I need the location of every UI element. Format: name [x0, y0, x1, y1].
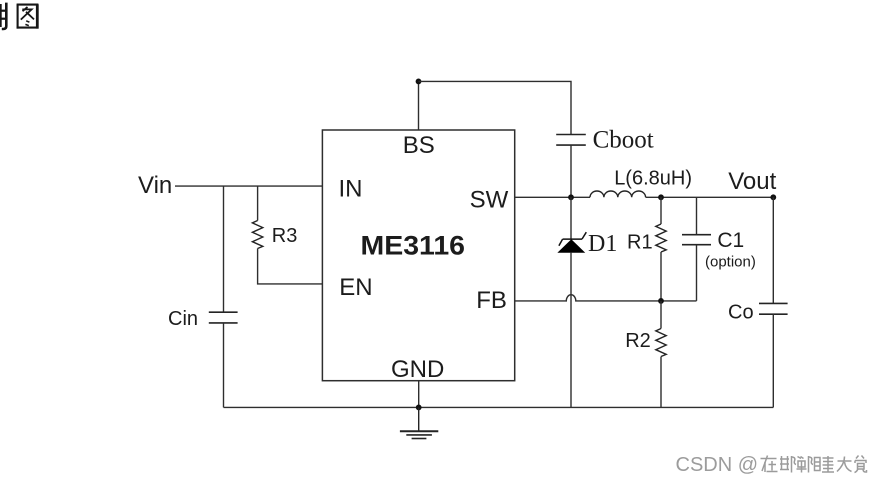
svg-text:EN: EN	[339, 274, 372, 301]
wire R3 branch lower to EN	[258, 249, 323, 284]
wire BS pin vertical	[418, 81, 420, 129]
node dot SW junction	[568, 194, 574, 200]
wire R3 branch upper	[257, 186, 259, 220]
wire D1 branch upper	[570, 197, 572, 240]
svg-text:FB: FB	[476, 287, 507, 314]
svg-text:R2: R2	[625, 330, 651, 352]
capacitor Co	[759, 303, 788, 314]
wire R2 branch lower	[660, 357, 662, 408]
wire D1 branch lower	[570, 252, 572, 407]
wire FB with hump over D1	[515, 295, 697, 301]
wire BS to Cboot top	[419, 81, 572, 134]
wire R1 branch upper	[660, 197, 662, 224]
svg-text:D1: D1	[588, 231, 617, 257]
大	[838, 460, 852, 462]
觉	[856, 456, 864, 459]
diode D1	[559, 232, 587, 252]
resistor R2	[656, 329, 666, 357]
capacitor Cboot	[556, 135, 586, 146]
wire Cin branch upper	[223, 186, 225, 312]
svg-text:Cboot: Cboot	[593, 127, 654, 154]
node dot ground junction	[416, 405, 422, 411]
wire inductor to Vout	[646, 196, 774, 198]
resistor R1	[656, 224, 666, 252]
svg-text:GND: GND	[391, 356, 444, 383]
wire SW pin to inductor	[515, 196, 590, 198]
wire C1 branch lower	[696, 245, 698, 301]
svg-text:Vin: Vin	[138, 172, 172, 199]
svg-text:C1: C1	[717, 229, 744, 252]
node dot FB junction	[658, 298, 664, 304]
svg-text:ME3116: ME3116	[361, 230, 466, 260]
title text 图	[17, 4, 39, 28]
svg-text:(option): (option)	[705, 254, 756, 271]
wire Vout branch upper	[772, 197, 774, 303]
resistor R3	[252, 221, 262, 249]
svg-text:CSDN @: CSDN @	[676, 454, 759, 476]
svg-text:Vout: Vout	[728, 168, 776, 195]
op-amp U1 ME3116 body	[322, 130, 514, 381]
node dot Vout	[770, 194, 776, 200]
svg-text:Cin: Cin	[168, 308, 198, 330]
svg-text:BS: BS	[403, 132, 435, 159]
node dot BS top	[416, 79, 422, 85]
wire Cin branch lower	[223, 323, 225, 408]
inductor L1	[590, 191, 646, 197]
ground	[400, 407, 438, 438]
wire bottom rail	[224, 406, 774, 408]
svg-text:IN: IN	[339, 175, 363, 202]
wire Cboot to SW node	[570, 145, 572, 197]
capacitor Cin	[209, 312, 238, 323]
在	[761, 458, 777, 460]
svg-text:L(6.8uH): L(6.8uH)	[614, 168, 692, 190]
睡	[815, 458, 821, 471]
邯	[780, 458, 789, 460]
svg-text:R1: R1	[627, 231, 653, 253]
svg-text:Co: Co	[728, 302, 754, 324]
wire R2 branch upper	[660, 301, 662, 329]
capacitor C1	[682, 235, 711, 245]
wire Vin to IN	[175, 185, 322, 187]
svg-text:R3: R3	[272, 225, 298, 247]
wire R1 branch lower	[660, 252, 662, 301]
郸	[798, 457, 802, 459]
node dot after inductor	[658, 194, 664, 200]
wire Co branch lower	[772, 314, 774, 407]
wire C1 branch upper	[696, 197, 698, 234]
watermark CJK 在邯郸睡大觉	[761, 456, 867, 473]
title text fragment 用 (clipped)	[0, 3, 6, 29]
svg-text:SW: SW	[470, 186, 509, 213]
wire GND pin vertical	[418, 380, 420, 407]
